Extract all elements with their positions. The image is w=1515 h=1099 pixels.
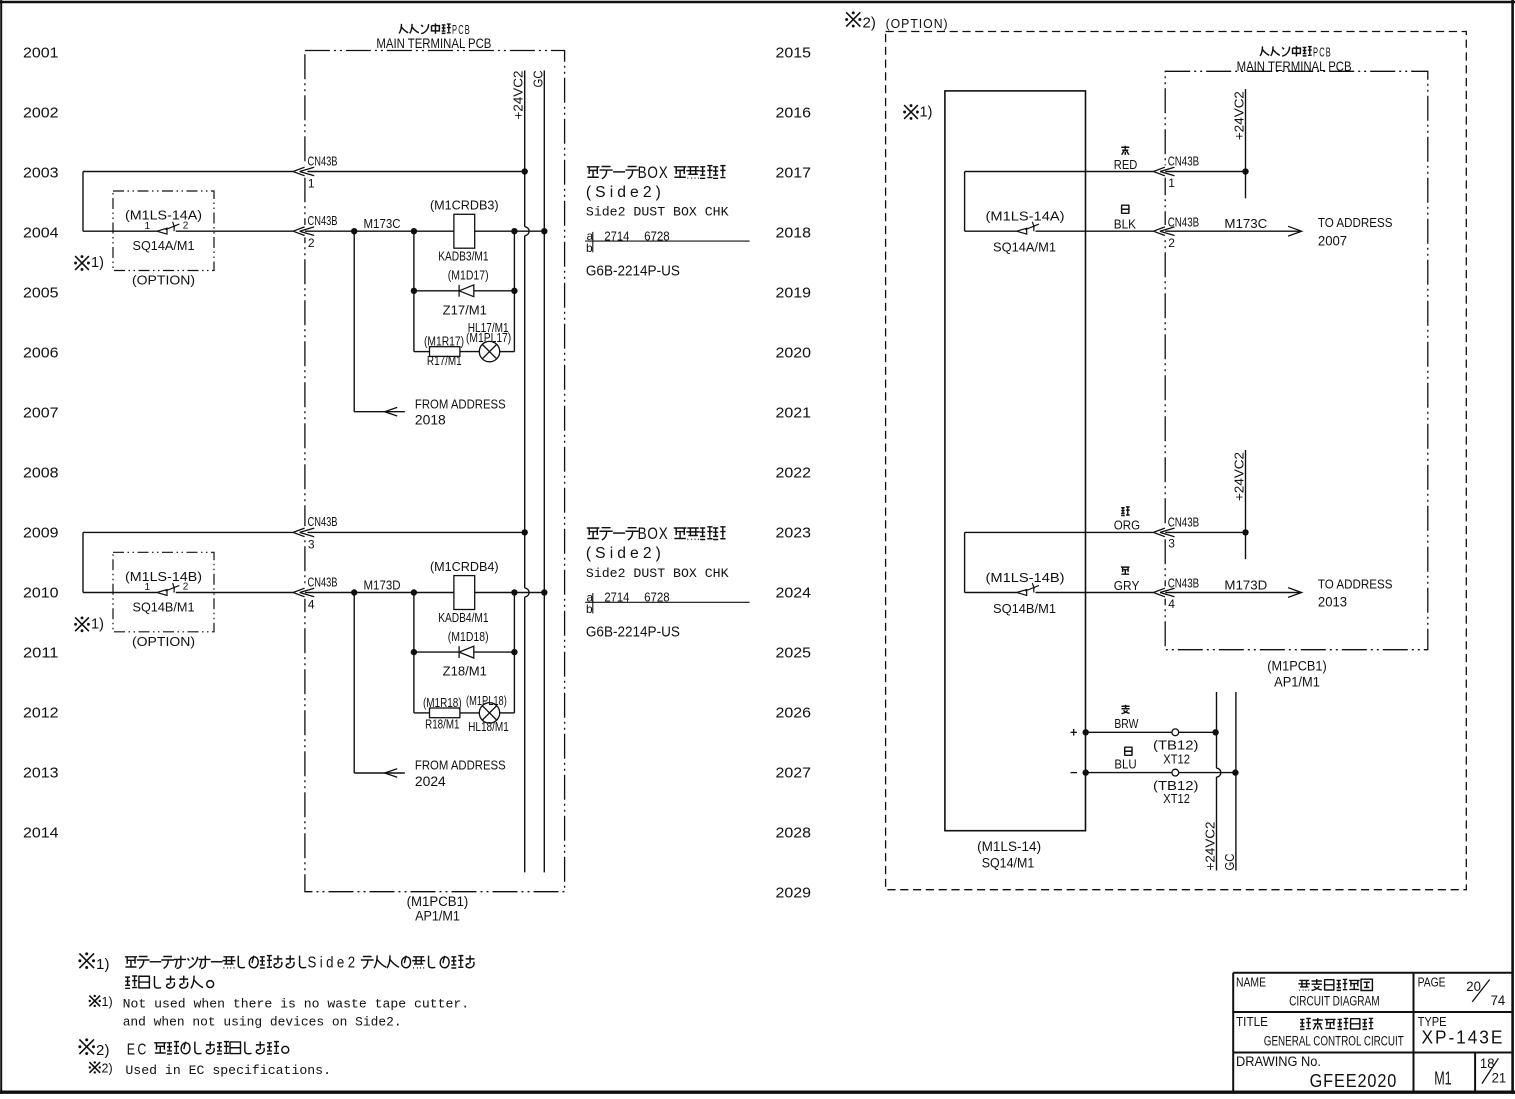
svg-text:+24VC2: +24VC2: [1232, 91, 1247, 140]
svg-text:Side2 DUST BOX CHK: Side2 DUST BOX CHK: [586, 205, 729, 220]
svg-text:+24VC2: +24VC2: [1203, 822, 1218, 871]
svg-text:(M1LS-14B): (M1LS-14B): [986, 570, 1065, 585]
svg-text:(M1LS-14A): (M1LS-14A): [125, 208, 202, 223]
svg-text:(M1D18): (M1D18): [448, 629, 489, 644]
svg-text:1: 1: [96, 956, 104, 973]
svg-text:2012: 2012: [23, 705, 59, 722]
svg-text:2: 2: [183, 220, 189, 231]
svg-text:4: 4: [1168, 597, 1175, 611]
svg-text:TO ADDRESS: TO ADDRESS: [1318, 215, 1393, 230]
svg-text:KADB3/M1: KADB3/M1: [438, 249, 488, 264]
svg-text:(M1CRDB4): (M1CRDB4): [430, 559, 499, 574]
svg-text:2008: 2008: [23, 465, 59, 482]
svg-text:SQ14/M1: SQ14/M1: [982, 856, 1035, 871]
svg-text:2014: 2014: [23, 825, 59, 842]
svg-text:(Side2): (Side2): [586, 545, 665, 562]
svg-text:GENERAL CONTROL CIRCUIT: GENERAL CONTROL CIRCUIT: [1264, 1034, 1404, 1049]
svg-text:2006: 2006: [23, 345, 59, 362]
svg-text:HL18/M1: HL18/M1: [468, 720, 509, 734]
svg-text:2013: 2013: [1318, 594, 1347, 610]
svg-text:CN43B: CN43B: [1168, 215, 1200, 229]
svg-text:2001: 2001: [23, 45, 59, 62]
svg-text:2017: 2017: [776, 165, 812, 182]
svg-text:AP1/M1: AP1/M1: [415, 908, 460, 923]
svg-text:74: 74: [1491, 992, 1506, 1008]
svg-text:1: 1: [145, 221, 151, 232]
svg-text:2029: 2029: [776, 885, 812, 902]
svg-text:M173C: M173C: [1224, 216, 1267, 231]
svg-text:2024: 2024: [415, 773, 446, 789]
svg-text:2004: 2004: [23, 225, 59, 242]
svg-text:BLK: BLK: [1114, 218, 1137, 232]
svg-text:(OPTION): (OPTION): [132, 273, 195, 288]
svg-text:): ): [105, 956, 110, 973]
svg-text:SQ14B/M1: SQ14B/M1: [133, 599, 195, 614]
svg-text:(M1R17): (M1R17): [424, 335, 464, 349]
svg-text:2): 2): [863, 14, 876, 31]
svg-text:BLU: BLU: [1114, 758, 1136, 772]
svg-text:(M1LS-14A): (M1LS-14A): [986, 209, 1065, 224]
svg-text:FROM ADDRESS: FROM ADDRESS: [415, 758, 506, 773]
svg-text:2: 2: [1168, 236, 1175, 250]
svg-text:2007: 2007: [23, 405, 59, 422]
svg-text:and when not using devices on: and when not using devices on Side2.: [123, 1015, 402, 1030]
svg-text:2015: 2015: [776, 45, 812, 62]
svg-text:M173C: M173C: [364, 216, 401, 231]
svg-text:b: b: [586, 241, 593, 255]
svg-text:Used in EC specifications.: Used in EC specifications.: [125, 1063, 331, 1078]
svg-text:(OPTION): (OPTION): [132, 634, 195, 649]
svg-text:2016: 2016: [776, 105, 812, 122]
svg-text:2019: 2019: [776, 285, 812, 302]
svg-text:(M1LS-14): (M1LS-14): [977, 839, 1041, 854]
svg-text:AP1/M1: AP1/M1: [1274, 675, 1320, 690]
svg-text:XT12: XT12: [1163, 751, 1190, 766]
svg-text:2: 2: [96, 1042, 104, 1059]
svg-text:20: 20: [1466, 978, 1481, 994]
svg-text:CN43B: CN43B: [308, 515, 338, 529]
svg-text:1): 1): [920, 105, 933, 121]
svg-text:1: 1: [145, 582, 151, 593]
svg-text:XP-143E: XP-143E: [1422, 1028, 1505, 1048]
svg-text:CIRCUIT DIAGRAM: CIRCUIT DIAGRAM: [1289, 994, 1380, 1009]
svg-text:Not used when there is no wast: Not used when there is no waste tape cut…: [123, 996, 470, 1011]
svg-text:2009: 2009: [23, 525, 59, 542]
svg-text:3: 3: [308, 537, 315, 551]
svg-text:(M1PL17): (M1PL17): [466, 331, 511, 345]
svg-text:GFEE2020: GFEE2020: [1310, 1070, 1398, 1091]
svg-text:BOX: BOX: [638, 164, 669, 182]
svg-text:21: 21: [1492, 1070, 1507, 1086]
svg-text:Z18/M1: Z18/M1: [443, 664, 487, 679]
svg-text:CN43B: CN43B: [1168, 577, 1200, 591]
svg-text:G6B-2214P-US: G6B-2214P-US: [586, 264, 680, 280]
svg-text:R17/M1: R17/M1: [427, 354, 462, 368]
svg-text:(M1R18): (M1R18): [423, 696, 462, 710]
svg-text:Z17/M1: Z17/M1: [443, 302, 487, 317]
svg-text:SQ14A/M1: SQ14A/M1: [993, 240, 1056, 255]
svg-text:(M1D17): (M1D17): [448, 268, 489, 283]
svg-text:2022: 2022: [776, 465, 812, 482]
svg-text:BOX: BOX: [638, 525, 669, 543]
svg-text:3: 3: [1168, 537, 1175, 551]
svg-text:2005: 2005: [23, 285, 59, 302]
svg-text:RED: RED: [1114, 158, 1138, 172]
svg-text:CN43B: CN43B: [308, 214, 338, 228]
svg-text:(M1PCB1): (M1PCB1): [1267, 659, 1326, 674]
svg-text:2011: 2011: [23, 645, 59, 662]
svg-text:DRAWING No.: DRAWING No.: [1236, 1054, 1321, 1069]
svg-text:2): 2): [102, 1061, 113, 1075]
svg-text:SQ14A/M1: SQ14A/M1: [133, 238, 195, 253]
svg-text:Side2: Side2: [308, 955, 359, 972]
svg-text:TITLE: TITLE: [1236, 1014, 1268, 1029]
svg-text:2003: 2003: [23, 165, 59, 182]
svg-text:2018: 2018: [776, 225, 812, 242]
svg-text:(M1CRDB3): (M1CRDB3): [430, 198, 499, 213]
svg-text:PAGE: PAGE: [1418, 974, 1446, 989]
svg-text:EC: EC: [127, 1041, 149, 1058]
svg-text:2018: 2018: [415, 412, 446, 428]
svg-text:2013: 2013: [23, 765, 59, 782]
svg-text:): ): [105, 1042, 110, 1059]
svg-text:M173D: M173D: [1224, 577, 1267, 592]
svg-text:+24VC2: +24VC2: [1232, 452, 1247, 501]
svg-text:ORG: ORG: [1114, 519, 1140, 533]
svg-text:2025: 2025: [776, 645, 812, 662]
svg-text:(M1PL18): (M1PL18): [466, 694, 507, 708]
svg-text:2021: 2021: [776, 405, 812, 422]
svg-text:MAIN TERMINAL PCB: MAIN TERMINAL PCB: [1237, 58, 1352, 74]
svg-text:1: 1: [308, 177, 315, 191]
svg-text:XT12: XT12: [1163, 791, 1190, 806]
svg-text:GC: GC: [530, 71, 545, 88]
svg-text:KADB4/M1: KADB4/M1: [438, 610, 488, 625]
svg-text:M1: M1: [1434, 1068, 1452, 1088]
svg-text:CN43B: CN43B: [308, 154, 338, 168]
svg-text:2024: 2024: [776, 585, 812, 602]
svg-text:2002: 2002: [23, 105, 59, 122]
svg-text:+24VC2: +24VC2: [511, 71, 526, 120]
svg-text:CN43B: CN43B: [308, 575, 338, 589]
svg-text:4: 4: [308, 598, 315, 612]
svg-text:1): 1): [91, 255, 104, 271]
svg-text:BRW: BRW: [1114, 717, 1138, 731]
svg-text:1: 1: [1168, 176, 1175, 190]
svg-text:2010: 2010: [23, 585, 59, 602]
svg-text:CN43B: CN43B: [1168, 516, 1200, 530]
svg-text:R18/M1: R18/M1: [425, 718, 459, 732]
svg-text:2020: 2020: [776, 345, 812, 362]
svg-text:GC: GC: [1222, 854, 1237, 871]
svg-text:M173D: M173D: [364, 578, 401, 593]
svg-text:NAME: NAME: [1236, 974, 1266, 989]
svg-text:Side2 DUST BOX CHK: Side2 DUST BOX CHK: [586, 566, 729, 581]
svg-text:GRY: GRY: [1114, 579, 1140, 593]
svg-text:CN43B: CN43B: [1168, 155, 1200, 169]
svg-text:1): 1): [102, 995, 113, 1009]
svg-text:(OPTION): (OPTION): [886, 17, 949, 31]
svg-text:2: 2: [308, 236, 315, 250]
svg-text:1): 1): [91, 616, 104, 632]
svg-text:b: b: [586, 602, 593, 616]
svg-text:SQ14B/M1: SQ14B/M1: [993, 601, 1056, 616]
svg-text:G6B-2214P-US: G6B-2214P-US: [586, 625, 680, 641]
svg-text:(Side2): (Side2): [586, 184, 665, 201]
svg-text:2028: 2028: [776, 825, 812, 842]
svg-text:2027: 2027: [776, 765, 812, 782]
svg-text:2026: 2026: [776, 705, 812, 722]
svg-text:2023: 2023: [776, 525, 812, 542]
svg-text:(M1PCB1): (M1PCB1): [407, 894, 469, 909]
svg-text:FROM ADDRESS: FROM ADDRESS: [415, 396, 506, 411]
svg-text:TO ADDRESS: TO ADDRESS: [1318, 576, 1393, 591]
svg-text:2007: 2007: [1318, 232, 1347, 248]
svg-text:(M1LS-14B): (M1LS-14B): [125, 569, 202, 584]
svg-text:2: 2: [183, 582, 189, 593]
svg-text:MAIN TERMINAL PCB: MAIN TERMINAL PCB: [376, 35, 491, 51]
